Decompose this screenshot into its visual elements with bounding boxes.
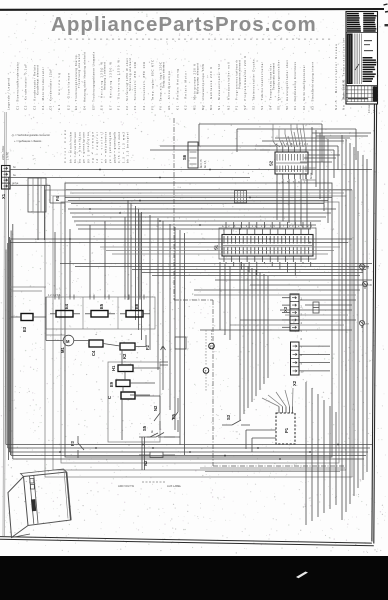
svg-text:bn = brown/braun: bn = brown/braun [73, 131, 77, 163]
svg-text:N2 - Niveauschalter voll: N2 - Niveauschalter voll [226, 62, 230, 110]
enclosure box outer [45, 190, 352, 477]
wire bs h3 [112, 253, 328, 255]
wire top bus 2 corner [237, 129, 356, 160]
wire top bus 5 [160, 145, 275, 147]
wires S2 fan up [273, 124, 306, 147]
svg-text:M2 - Umwaelzpumpe 65W: M2 - Umwaelzpumpe 65W [201, 64, 205, 110]
frame bottom border [0, 537, 374, 546]
svg-text:X1: X1 [1, 193, 6, 199]
motor M1 [63, 335, 74, 346]
svg-text:K2 - Relais Motor: K2 - Relais Motor [183, 71, 187, 110]
svg-text:1 3 5 7 9 11: 1 3 5 7 9 11 [276, 180, 309, 184]
ground N7 [359, 320, 364, 328]
svg-text:K1 - Relais Heizung: K1 - Relais Heizung [176, 69, 180, 110]
element E3 [21, 314, 33, 321]
svg-text:S5 - Verriegelungsschalter: S5 - Verriegelungsschalter [276, 60, 280, 110]
svg-text:E1 - Heizung: E1 - Heizung [57, 73, 61, 110]
chassis dash-dot link [174, 299, 213, 301]
title block [342, 12, 378, 105]
svg-text:N2: N2 [153, 405, 158, 411]
svg-text:C1 - Stoerschutzkondensator: C1 - Stoerschutzkondensator [16, 62, 20, 110]
symbol legend note [11, 133, 50, 143]
svg-text:bu: bu [13, 173, 16, 177]
svg-text:Temperatu element: Temperatu element [272, 63, 276, 90]
wire mr h10 [285, 314, 348, 316]
svg-text:Sicherung element: Sicherung element [128, 58, 132, 91]
wire bundle mid-top [65, 198, 332, 204]
wires S2 fan stems [273, 124, 297, 141]
wire elbow a [255, 146, 338, 170]
svg-text:bk = black/schw: bk = black/schw [69, 132, 73, 163]
wire ur h4 [304, 157, 336, 159]
connector aux 2pin [313, 302, 319, 313]
wire lm v1 [10, 286, 46, 288]
wire bundle center vertical [128, 200, 185, 455]
svg-text:bn: bn [13, 165, 16, 169]
svg-text:bn 1,5: bn 1,5 [203, 160, 207, 168]
enclosure box 4 [65, 183, 332, 457]
switch F5 contact [172, 398, 178, 432]
wire bundle S1 down [240, 262, 268, 420]
svg-text:F3: F3 [70, 440, 75, 446]
svg-text:F: F [210, 345, 212, 349]
svg-text:2 4 6 8 10 12: 2 4 6 8 10 12 [276, 142, 309, 146]
svg-text:0,5 xxx: 0,5 xxx [372, 104, 376, 113]
wires heater drops [55, 213, 140, 297]
wire ur h3 [308, 154, 340, 156]
svg-text:gn/ye = gruen/gelb: gn/ye = gruen/gelb [113, 131, 117, 163]
svg-text:Kondensat element: Kondensat element [36, 65, 40, 95]
wires S1 to X3 [220, 262, 230, 340]
svg-text:M3 - Geblaese 220 V: M3 - Geblaese 220 V [209, 67, 213, 110]
svg-text:N6: N6 [369, 283, 373, 287]
svg-text:E3: E3 [22, 326, 27, 332]
wire bs h1 [100, 246, 340, 248]
svg-text:1 2 3 4 5 6: 1 2 3 4 5 6 [48, 293, 61, 297]
wires motor row [46, 297, 146, 347]
svg-text:10: 10 [301, 369, 304, 373]
svg-text:rd = red/rot: rd = red/rot [95, 132, 99, 163]
wire L from X1 [10, 169, 372, 171]
small box F2b [175, 337, 186, 349]
svg-text:E7 - Heizung 1350 W: E7 - Heizung 1350 W [108, 62, 112, 110]
wire right h7 [200, 329, 352, 331]
wires S2 down stubs [277, 179, 307, 228]
wire double feed [10, 239, 352, 243]
svg-text:Motorpump element: Motorpump element [196, 63, 200, 94]
wire top bus 3 [275, 137, 350, 139]
timer P1 [276, 407, 295, 445]
svg-text:C2 - Kondensator 0,1uF: C2 - Kondensator 0,1uF [24, 64, 28, 110]
wire bundle to S1 [68, 209, 336, 229]
wire drop pair [142, 437, 145, 470]
svg-text:0,75 = 0,75 mm2: 0,75 = 0,75 mm2 [117, 131, 121, 163]
svg-text:AUX LABEL: AUX LABEL [167, 484, 182, 488]
switch S6 [188, 142, 198, 168]
switch S4 contact [147, 433, 180, 438]
wires P1 left [246, 430, 276, 452]
svg-text:C4: C4 [91, 350, 96, 356]
ground N6 [362, 281, 367, 289]
frame left border [3, 112, 6, 536]
frame right border [372, 11, 377, 544]
svg-text:vt = violett: vt = violett [99, 132, 103, 163]
svg-text:S2: S2 [269, 160, 274, 166]
svg-text:Legende / Legend: Legende / Legend [7, 78, 11, 110]
svg-text:N5: N5 [366, 266, 370, 270]
svg-text:9: 9 [301, 361, 303, 365]
wire bb h1 [200, 467, 345, 469]
svg-text:N1 - Niveauschalter 1/2: N1 - Niveauschalter 1/2 [217, 64, 221, 110]
svg-text:AppliancePartsPros.com: AppliancePartsPros.com [51, 13, 317, 36]
legend tick row [58, 39, 330, 40]
wire right h3 [194, 289, 360, 291]
capacitor C4 [89, 340, 103, 347]
svg-text:E2 - Gluehlampe: E2 - Gluehlampe [66, 73, 70, 110]
svg-text:X2 - Verbindungsstecker: X2 - Verbindungsstecker [302, 65, 306, 110]
bottom bar white slash [296, 572, 308, 579]
svg-text:X2: X2 [292, 380, 297, 386]
svg-text:F1 - Sicherung 1350 W: F1 - Sicherung 1350 W [116, 60, 120, 110]
switch F3 [78, 436, 84, 458]
wire bs h2 [106, 250, 334, 252]
svg-text:F4: F4 [55, 195, 60, 201]
wire ur h5 [300, 161, 332, 163]
svg-text:K2: K2 [122, 353, 127, 359]
wire top bus 1 corner [198, 124, 200, 146]
thermostat F6 [209, 343, 215, 349]
svg-text:ADD VOLT W: ADD VOLT W [118, 484, 134, 488]
pin numbers X3 [301, 297, 304, 374]
node 220V supply label [1, 145, 10, 160]
wire PE from X1 [10, 184, 50, 186]
wire lm v2 [10, 290, 42, 292]
svg-text:P1: P1 [284, 427, 289, 433]
filter box E2 [28, 178, 46, 212]
svg-text:6: 6 [301, 337, 303, 341]
svg-text:5: 5 [301, 329, 303, 333]
heater elements E4 E5 E6 [46, 295, 155, 330]
wires E3 [11, 316, 47, 318]
svg-text:gn = green/gruen: gn = green/gruen [82, 131, 86, 163]
svg-text:S5: S5 [142, 425, 147, 431]
svg-text:T: T [205, 369, 207, 373]
svg-text:og = orange: og = orange [91, 131, 95, 163]
legend text columns [7, 38, 346, 110]
svg-text:S3: S3 [226, 414, 231, 420]
svg-text:N7: N7 [366, 322, 370, 326]
svg-text:S6: S6 [182, 154, 187, 160]
relay K2 [120, 343, 135, 350]
wire bundle right vertical bus [342, 135, 367, 520]
svg-text:E4: E4 [64, 303, 69, 309]
wire top bus 2 [237, 128, 356, 130]
svg-text:ye = yellow/gelb: ye = yellow/gelb [108, 131, 112, 163]
svg-text:bn bk: bn bk [309, 172, 313, 179]
scan top edge line [0, 8, 384, 11]
svg-text:M: M [66, 339, 70, 344]
chassis dash-dot horizontal [213, 465, 348, 467]
wire left vertical bus b [10, 240, 12, 455]
svg-text:C5 - Kondensator 12uF: C5 - Kondensator 12uF [49, 69, 53, 110]
wire heater top link [46, 334, 65, 336]
switch S3 [222, 420, 250, 425]
relay K1 box [235, 191, 247, 204]
switch S5 [139, 433, 175, 437]
wire dashed near sensors [206, 330, 212, 392]
wire ur h1 [312, 132, 371, 134]
wire lm h1 [66, 189, 352, 191]
svg-text:Color Code: Color Code [63, 129, 67, 163]
svg-text:L: L [129, 333, 133, 335]
svg-text:Programms element: Programms element [237, 60, 241, 89]
wire bb h2 [205, 471, 340, 473]
svg-text:S6 - Heizungsschalter oben: S6 - Heizungsschalter oben [285, 60, 289, 110]
svg-text:X3: X3 [283, 306, 288, 312]
svg-text:220V: 220V [304, 173, 308, 179]
wire bottom bus bundle [6, 224, 372, 460]
svg-text:X3 - Steckverbindung intern: X3 - Steckverbindung intern [311, 62, 315, 110]
svg-text:E4 - Heizung oben Heating elem: E4 - Heizung oben Heating element [83, 52, 87, 110]
svg-text:1,5 = 1,5 mm2: 1,5 = 1,5 mm2 [121, 131, 125, 163]
svg-text:bu = blue/blau: bu = blue/blau [77, 131, 81, 163]
wire mr h11 [230, 324, 344, 326]
wire X1 drop bus [38, 178, 45, 241]
svg-text:Trocknung element: Trocknung element [77, 54, 81, 88]
svg-text:4: 4 [301, 321, 303, 325]
ground N5 [359, 264, 364, 272]
scan corner mark [384, 4, 388, 12]
wire bundle upper right [312, 127, 328, 223]
svg-text:8: 8 [301, 353, 303, 357]
wire top bus 6 [150, 149, 270, 151]
svg-text:F5: F5 [171, 413, 176, 419]
lamp H1 [118, 365, 133, 372]
svg-text:H1 - Anzeigelampe: H1 - Anzeigelampe [167, 71, 171, 110]
wire right h6 [240, 319, 356, 321]
svg-text:E9: E9 [109, 381, 114, 387]
svg-text:gn/ye: gn/ye [12, 181, 19, 185]
fuse F4 [50, 185, 65, 212]
svg-text:N2: N2 [143, 460, 148, 466]
chassis dash-dot vertical 2 [212, 300, 214, 466]
wires stack [122, 350, 160, 440]
svg-text:F3 - Schutzsch. 85C 10A: F3 - Schutzsch. 85C 10A [133, 62, 137, 110]
svg-text:L: L [94, 333, 98, 335]
wire bundle bottom right drops [306, 382, 336, 525]
thermostat F5 [203, 368, 209, 374]
svg-text:+ = Gehaeuse / chassis: + = Gehaeuse / chassis [14, 139, 42, 143]
svg-text:bk 1,5 beispiel: bk 1,5 beispiel [126, 132, 130, 163]
wire top bus 1 [199, 123, 322, 125]
appliance sketch [8, 469, 71, 538]
svg-text:bk: bk [150, 430, 154, 433]
wire right h2 [250, 284, 368, 286]
switch N2b contact [135, 396, 160, 430]
wire lm h2 [70, 192, 344, 194]
label box top right [303, 168, 316, 180]
wire N from X1 [10, 177, 250, 179]
stack enclosure [108, 362, 160, 442]
wire mr h9 [280, 309, 352, 311]
wire ur h2 [316, 135, 368, 137]
switch N2 [150, 452, 163, 458]
svg-text:-()- = Verbindungsstelle conne: -()- = Verbindungsstelle connector [11, 133, 50, 137]
svg-text:F5 - Temp.regler 85C NTC: F5 - Temp.regler 85C NTC [151, 60, 155, 110]
wire right h5 [305, 304, 352, 306]
svg-text:N2.5 - Mikroschalter Niveau: N2.5 - Mikroschalter Niveau [334, 44, 338, 110]
svg-text:E6: E6 [134, 303, 139, 309]
svg-text:S2 - Tastenschalter Drucks.: S2 - Tastenschalter Drucks. [252, 58, 256, 110]
wire v right of S2 [321, 124, 323, 162]
svg-text:gy = grey/grau: gy = grey/grau [86, 131, 90, 163]
wires S1 top stubs [226, 222, 311, 228]
svg-text:S1 - Programmwaehler 220 V: S1 - Programmwaehler 220 V [243, 56, 247, 110]
svg-text:M1: M1 [60, 347, 65, 353]
wires S1 bottom stubs [226, 262, 311, 276]
bottom scan black bar [0, 556, 388, 600]
switch S1 programmer [219, 228, 316, 262]
wire right h4 [300, 299, 356, 301]
wires P1 fan [262, 388, 293, 407]
svg-text:1:0 xxx: 1:0 xxx [367, 104, 371, 113]
switch S2 [275, 147, 308, 179]
svg-text:C: C [107, 396, 112, 399]
color code legend [63, 129, 130, 163]
svg-text:H1: H1 [111, 365, 116, 371]
svg-text:E5 - Trocknungsgeblaese Umwael: E5 - Trocknungsgeblaese Umwaelz [92, 51, 96, 110]
wire top bus 4 [262, 140, 344, 142]
svg-text:Druck v. 10.01.95: Druck v. 10.01.95 [342, 79, 346, 100]
wire bundle below S1 [60, 264, 372, 276]
enclosure box 2 [53, 196, 346, 470]
svg-text:C4 - Motorkondensator: C4 - Motorkondensator [41, 67, 45, 110]
relay arrow K1 [160, 346, 168, 365]
wire mr h8 [194, 294, 356, 296]
chassis dash-dot vertical [173, 118, 175, 300]
svg-text:S3 - Tuerkontaktschalter: S3 - Tuerkontaktschalter [260, 62, 264, 110]
scan edge tick [385, 24, 388, 26]
svg-text:Heizung 1 element: Heizung 1 element [103, 62, 107, 90]
svg-text:X1 - Netzklemme Anschluss: X1 - Netzklemme Anschluss [293, 61, 297, 110]
svg-text:bk 0,75: bk 0,75 [199, 159, 203, 168]
enclosure box 3 [61, 202, 339, 463]
svg-text:E5: E5 [99, 303, 104, 309]
element E9 [116, 380, 130, 387]
capacitor C1 [121, 392, 135, 399]
wire elbow b [260, 150, 334, 178]
svg-text:wh = white/weiss: wh = white/weiss [104, 131, 108, 163]
svg-text:F4 - Schutzsch. 85C 10A: F4 - Schutzsch. 85C 10A [142, 62, 146, 110]
wire right h1 [215, 279, 372, 281]
svg-text:Temp.sich element: Temp.sich element [162, 62, 166, 88]
connector X3 X2 column [282, 294, 330, 375]
wire junction dots [69, 169, 311, 244]
connector X1 [2, 166, 11, 190]
wire left vertical bus a [8, 178, 10, 461]
